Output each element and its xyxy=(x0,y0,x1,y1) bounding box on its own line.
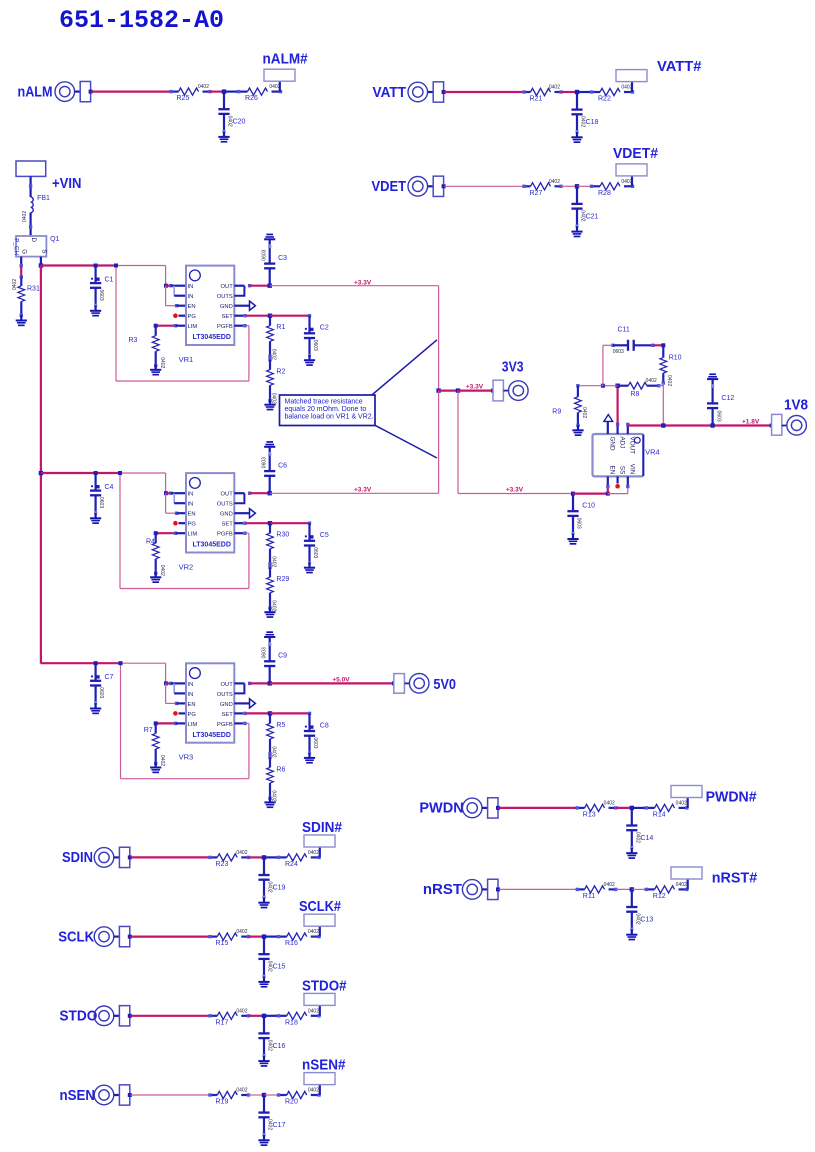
wire LIM VR3 xyxy=(156,722,176,724)
svg-text:R24: R24 xyxy=(285,861,298,868)
svg-text:0402: 0402 xyxy=(236,1008,247,1014)
wire STDO to R17 xyxy=(130,1015,210,1017)
svg-text:GND: GND xyxy=(220,304,233,310)
junction SET divider VR3 xyxy=(268,711,272,715)
wire FB1 to Q1 drain xyxy=(30,213,32,236)
capacitor C3 xyxy=(269,268,271,285)
capacitor C1 xyxy=(94,264,98,268)
svg-text:0402: 0402 xyxy=(236,850,247,856)
wire input rail VR2 xyxy=(41,472,120,474)
svg-text:SET: SET xyxy=(222,712,234,718)
wire R13 to node xyxy=(616,807,632,809)
junction OUT VR2 xyxy=(248,492,251,495)
svg-text:0402: 0402 xyxy=(271,790,277,801)
wire to IN pins VR1 xyxy=(166,285,171,287)
ground xyxy=(90,703,101,714)
svg-text:C13: C13 xyxy=(640,916,653,923)
svg-text:SDIN#: SDIN# xyxy=(302,819,343,836)
svg-text:R30: R30 xyxy=(276,532,289,539)
svg-text:VR4: VR4 xyxy=(645,448,660,457)
capacitor C10 xyxy=(571,492,575,496)
svg-text:C5: C5 xyxy=(320,532,329,539)
svg-text:VATT: VATT xyxy=(373,84,407,101)
svg-text:R7: R7 xyxy=(144,727,153,734)
svg-text:FB1: FB1 xyxy=(37,195,50,202)
svg-text:3V3: 3V3 xyxy=(502,359,524,376)
svg-text:+3.3V: +3.3V xyxy=(466,383,484,390)
capacitor C13 xyxy=(631,889,633,907)
svg-text:nRST#: nRST# xyxy=(712,870,758,887)
ground xyxy=(16,315,27,326)
svg-text:R20: R20 xyxy=(285,1099,298,1106)
svg-text:0402: 0402 xyxy=(198,84,209,90)
svg-text:0402: 0402 xyxy=(159,357,165,368)
wire R21 to node xyxy=(561,91,577,93)
junction SET divider VR2 xyxy=(268,521,272,525)
svg-text:OUTS: OUTS xyxy=(217,502,233,508)
regulator VR4 body xyxy=(593,434,644,476)
wire VIN rail vertical main xyxy=(40,266,42,664)
capacitor C21 xyxy=(576,186,578,204)
resistor R14 xyxy=(646,804,687,811)
svg-text:C20: C20 xyxy=(233,119,246,126)
junction node SCLK/C15 xyxy=(262,934,266,938)
svg-text:0402: 0402 xyxy=(549,85,560,91)
resistor R24 xyxy=(279,854,320,861)
wire divider mid VR3 xyxy=(269,754,271,758)
svg-text:PGFB: PGFB xyxy=(217,532,233,538)
svg-text:0603: 0603 xyxy=(262,647,268,658)
svg-text:Q1: Q1 xyxy=(50,236,59,243)
junction OUT VR1 xyxy=(248,284,251,287)
power port +VIN xyxy=(16,161,46,176)
Q1 source pin xyxy=(40,257,42,266)
svg-text:C7: C7 xyxy=(105,674,114,681)
capacitor C16 xyxy=(263,1016,265,1034)
svg-text:0402: 0402 xyxy=(236,929,247,935)
pin VIN VR4 xyxy=(627,476,629,486)
capacitor C5 xyxy=(308,523,310,541)
svg-text:nRST: nRST xyxy=(423,881,462,898)
svg-text:0402: 0402 xyxy=(271,393,277,404)
ground xyxy=(571,132,582,143)
ground xyxy=(258,977,269,988)
svg-text:0402: 0402 xyxy=(308,1088,319,1094)
ground xyxy=(264,797,275,808)
wire R17 to node xyxy=(249,1015,265,1017)
wire +3.3V into VR4 EN/VIN xyxy=(573,493,608,495)
svg-text:0603: 0603 xyxy=(312,737,318,748)
ground xyxy=(304,562,315,573)
resistor R27 xyxy=(524,183,561,190)
port STDO# xyxy=(304,993,335,1005)
wire node to R12 xyxy=(632,888,647,890)
svg-text:PG: PG xyxy=(188,522,197,528)
wire R28 to port xyxy=(631,176,633,186)
svg-text:C1: C1 xyxy=(105,277,114,284)
svg-text:R2: R2 xyxy=(276,369,285,376)
wire EN VR1 xyxy=(165,286,167,306)
svg-text:PG: PG xyxy=(188,314,197,320)
junction +3.3V B xyxy=(456,388,460,392)
svg-text:0402: 0402 xyxy=(159,565,165,576)
svg-text:C19: C19 xyxy=(273,884,286,891)
svg-text:R17: R17 xyxy=(216,1019,229,1026)
junction Q1 source / VIN rail xyxy=(39,263,43,267)
ground xyxy=(264,399,275,410)
svg-text:0603: 0603 xyxy=(262,457,268,468)
ground xyxy=(258,897,269,908)
svg-text:0603: 0603 xyxy=(613,349,624,355)
ground xyxy=(264,234,275,245)
ground xyxy=(304,355,315,366)
svg-text:R9: R9 xyxy=(552,408,561,415)
svg-text:P_CH: P_CH xyxy=(12,238,19,255)
svg-text:GND: GND xyxy=(220,512,233,518)
svg-text:+1.8V: +1.8V xyxy=(742,418,760,425)
svg-text:SS: SS xyxy=(618,466,625,474)
svg-text:C15: C15 xyxy=(273,964,286,971)
svg-text:LIM: LIM xyxy=(188,532,198,538)
svg-text:C12: C12 xyxy=(721,395,734,402)
svg-text:C17: C17 xyxy=(273,1122,286,1129)
wire OUT rail VR3 xyxy=(250,682,270,684)
wire VDET to R27 xyxy=(444,185,524,187)
wire SET VR3 xyxy=(234,712,243,714)
svg-text:C8: C8 xyxy=(320,722,329,729)
svg-text:0402: 0402 xyxy=(646,378,657,384)
port 1V8 xyxy=(770,424,774,428)
wire LIM VR1 xyxy=(156,325,176,327)
resistor R3 xyxy=(154,324,158,328)
capacitor C18 xyxy=(576,92,578,110)
svg-text:651-1582-A0: 651-1582-A0 xyxy=(59,6,224,35)
resistor R28 xyxy=(592,183,633,190)
svg-text:0402: 0402 xyxy=(12,279,18,290)
junction IN VR2 xyxy=(164,491,168,495)
wire +3.3V down-left to VR2 OUT xyxy=(438,391,440,494)
svg-text:0402: 0402 xyxy=(581,407,587,418)
svg-text:SET: SET xyxy=(222,522,234,528)
svg-text:IN: IN xyxy=(188,502,194,508)
wire VOUT rail +1.8V xyxy=(628,424,772,426)
wire nSEN to R19 xyxy=(130,1094,210,1096)
resistor R17 xyxy=(210,1012,249,1019)
junction +3.3V A xyxy=(436,388,440,392)
capacitor C8 xyxy=(308,713,310,731)
wire R22 to port xyxy=(631,82,633,92)
resistor R25 xyxy=(171,88,210,95)
svg-text:0402: 0402 xyxy=(604,882,615,888)
svg-text:R31: R31 xyxy=(27,286,40,293)
wire R20 to port xyxy=(319,1085,321,1095)
svg-text:LIM: LIM xyxy=(188,722,198,728)
resistor R20 xyxy=(279,1091,320,1098)
svg-text:R12: R12 xyxy=(653,893,666,900)
wire +3.3V from VR1 OUT xyxy=(270,285,439,287)
port nALM# xyxy=(264,69,295,81)
wire node to R14 xyxy=(632,807,647,809)
svg-text:0402: 0402 xyxy=(676,801,687,807)
wire +3.3V junctions xyxy=(439,390,458,392)
svg-text:nSEN#: nSEN# xyxy=(302,1057,346,1074)
svg-text:PGFB: PGFB xyxy=(217,722,233,728)
capacitor C2 xyxy=(308,316,310,334)
svg-text:VDET#: VDET# xyxy=(613,145,659,162)
wire input rail VR3 xyxy=(41,662,121,664)
svg-text:SET: SET xyxy=(222,314,234,320)
junction C9 on OUT rail xyxy=(268,681,272,685)
svg-text:PGFB: PGFB xyxy=(217,324,233,330)
svg-text:VR3: VR3 xyxy=(179,753,194,762)
svg-text:G: G xyxy=(21,249,28,254)
svg-text:R13: R13 xyxy=(583,811,596,818)
wire SET VR1 xyxy=(234,315,243,317)
wire +5.0V rail VR3 OUT xyxy=(270,682,394,684)
svg-text:VOUT: VOUT xyxy=(629,437,636,455)
svg-text:0603: 0603 xyxy=(98,290,104,301)
svg-text:0402: 0402 xyxy=(308,1008,319,1014)
capacitor C7 xyxy=(94,661,98,665)
wire R15 to node xyxy=(249,935,265,937)
svg-text:0402: 0402 xyxy=(666,375,672,386)
svg-text:R18: R18 xyxy=(285,1019,298,1026)
svg-text:nALM#: nALM# xyxy=(263,51,309,68)
wire EN VR3 xyxy=(165,683,167,703)
wire PGFB loop VR1 xyxy=(234,325,243,327)
junction C11 tap xyxy=(601,384,605,388)
svg-text:IN: IN xyxy=(188,692,194,698)
svg-text:PWDN: PWDN xyxy=(419,800,463,817)
junction PGFB loop VR1 xyxy=(114,264,118,268)
svg-text:0402: 0402 xyxy=(676,882,687,888)
wire divider mid VR2 xyxy=(269,564,271,568)
svg-text:PWDN#: PWDN# xyxy=(706,789,758,806)
svg-text:0603: 0603 xyxy=(262,249,268,260)
wire C11 to R10 xyxy=(653,344,663,346)
svg-text:equals 20 mOhm. Done to: equals 20 mOhm. Done to xyxy=(285,406,367,413)
resistor R26 xyxy=(239,88,281,95)
svg-text:IN: IN xyxy=(188,284,194,290)
resistor R2 xyxy=(268,358,271,361)
svg-text:0402: 0402 xyxy=(236,1088,247,1094)
svg-text:EN: EN xyxy=(188,304,196,310)
svg-text:IN: IN xyxy=(188,294,194,300)
svg-text:VIN: VIN xyxy=(629,464,636,475)
port VATT# xyxy=(616,70,647,82)
wire OUT rail VR2 xyxy=(250,492,270,494)
ground arrow GND pin VR2 xyxy=(234,512,249,514)
junction node VDET/C21 xyxy=(575,184,579,188)
wire SCLK to R15 xyxy=(130,935,210,937)
svg-text:0402: 0402 xyxy=(308,929,319,935)
wire node to R20 xyxy=(264,1094,279,1096)
svg-text:C14: C14 xyxy=(640,835,653,842)
resistor R21 xyxy=(524,88,561,95)
resistor R7 xyxy=(154,721,158,725)
port SDIN# xyxy=(304,835,335,847)
capacitor C15 xyxy=(263,937,265,955)
ground xyxy=(218,132,229,143)
svg-text:R10: R10 xyxy=(669,354,682,361)
wire nRST to R11 xyxy=(499,888,578,890)
svg-text:OUTS: OUTS xyxy=(217,294,233,300)
svg-text:R1: R1 xyxy=(276,324,285,331)
svg-text:0603: 0603 xyxy=(312,340,318,351)
ground arrow GND pin VR3 xyxy=(234,702,249,704)
junction IN VR1 xyxy=(164,284,168,288)
pin PG VR2 with flag xyxy=(179,522,187,524)
ground xyxy=(571,226,582,237)
svg-text:R25: R25 xyxy=(177,95,190,102)
wire R10 to VOUT rail xyxy=(662,383,664,426)
svg-text:C11: C11 xyxy=(618,326,630,333)
svg-text:R15: R15 xyxy=(216,940,229,947)
svg-text:R4: R4 xyxy=(146,539,155,546)
wire ADJ left to R9 xyxy=(603,385,618,387)
svg-text:GND: GND xyxy=(220,702,233,708)
resistor R13 xyxy=(577,804,616,811)
svg-text:STDO#: STDO# xyxy=(302,978,347,995)
svg-text:C18: C18 xyxy=(586,119,599,126)
port nRST# xyxy=(671,867,702,879)
capacitor C4 xyxy=(94,471,98,475)
ground xyxy=(304,753,315,764)
note callout lines xyxy=(372,340,438,458)
svg-text:1V8: 1V8 xyxy=(784,397,808,414)
junction VIN at VR2 rail xyxy=(39,471,43,475)
ground xyxy=(90,305,101,316)
svg-text:OUT: OUT xyxy=(221,284,234,290)
svg-text:SDIN: SDIN xyxy=(62,849,93,866)
svg-text:R29: R29 xyxy=(276,576,289,583)
wire R19 to node xyxy=(249,1094,265,1096)
svg-text:SCLK#: SCLK# xyxy=(299,898,342,915)
ground xyxy=(264,607,275,618)
wire R11 to node xyxy=(616,888,632,890)
wire LIM VR2 xyxy=(156,532,176,534)
svg-text:R28: R28 xyxy=(598,190,611,197)
port SCLK# xyxy=(304,914,335,926)
wire PGFB loop VR2 xyxy=(234,532,243,534)
resistor R29 xyxy=(268,566,271,569)
resistor R6 xyxy=(268,756,271,759)
junction R10/VOUT xyxy=(661,423,665,427)
svg-text:R5: R5 xyxy=(276,722,285,729)
wire R26 to port xyxy=(279,81,281,91)
svg-text:IN: IN xyxy=(188,682,194,688)
wire to IN pins VR2 xyxy=(166,492,171,494)
svg-text:R21: R21 xyxy=(530,96,543,103)
ferrite bead FB1 xyxy=(31,197,34,213)
svg-text:ADJ: ADJ xyxy=(618,437,625,449)
resistor R31 xyxy=(20,275,23,278)
svg-text:VATT#: VATT# xyxy=(657,58,702,75)
svg-text:nALM: nALM xyxy=(18,83,53,100)
wire ADJ to divider xyxy=(616,386,618,425)
wire OUT/OUTS bracket VR2 xyxy=(234,492,244,494)
svg-text:+3.3V: +3.3V xyxy=(506,487,524,494)
svg-text:0603: 0603 xyxy=(576,518,582,529)
wire R18 to port xyxy=(319,1006,321,1016)
svg-text:R6: R6 xyxy=(276,766,285,773)
port PWDN# xyxy=(671,786,702,798)
svg-text:STDO: STDO xyxy=(59,1008,97,1025)
ground xyxy=(258,1135,269,1146)
ground xyxy=(572,425,583,436)
ground xyxy=(264,631,275,642)
capacitor C17 xyxy=(263,1095,265,1113)
ground xyxy=(90,513,101,524)
svg-text:R23: R23 xyxy=(216,861,229,868)
svg-text:+VIN: +VIN xyxy=(52,175,81,192)
capacitor C9 xyxy=(269,666,271,683)
svg-text:R8: R8 xyxy=(630,391,639,398)
pin ADJ VR4 xyxy=(616,424,618,434)
pin VOUT VR4 xyxy=(627,424,629,434)
junction OUT VR3 xyxy=(248,682,251,685)
svg-text:EN: EN xyxy=(609,466,616,475)
resistor R22 xyxy=(592,88,633,95)
svg-text:C6: C6 xyxy=(278,462,287,469)
wire OUT rail VR1 xyxy=(250,285,270,287)
capacitor C14 xyxy=(631,808,633,826)
ground xyxy=(150,364,161,375)
pin PG VR1 with flag xyxy=(179,315,187,317)
svg-text:C3: C3 xyxy=(278,255,287,262)
wire nALM to R25 xyxy=(91,90,171,92)
junction PGFB loop VR2 xyxy=(118,471,122,475)
capacitor C12 xyxy=(711,408,713,425)
svg-text:VR2: VR2 xyxy=(179,563,194,572)
svg-text:OUTS: OUTS xyxy=(217,692,233,698)
svg-text:VDET: VDET xyxy=(372,178,407,195)
svg-text:S: S xyxy=(41,249,48,253)
wire node to R26 xyxy=(224,90,239,92)
svg-text:R27: R27 xyxy=(530,190,543,197)
transistor Q1 P-CH MOSFET xyxy=(16,236,46,257)
svg-text:0402: 0402 xyxy=(22,211,28,222)
svg-text:+3.3V: +3.3V xyxy=(354,279,372,286)
junction ADJ node xyxy=(615,384,619,388)
svg-text:PG: PG xyxy=(188,712,197,718)
pin SS VR4 with flag xyxy=(616,476,618,483)
resistor R1 xyxy=(267,316,274,357)
wire R25 to node xyxy=(210,90,224,92)
svg-text:GND: GND xyxy=(609,437,616,451)
svg-text:nSEN: nSEN xyxy=(60,1087,96,1104)
wire divider mid VR1 xyxy=(269,356,271,360)
svg-text:R26: R26 xyxy=(245,95,258,102)
svg-text:LT3045EDD: LT3045EDD xyxy=(193,334,231,341)
svg-text:R19: R19 xyxy=(216,1099,229,1106)
svg-text:0402: 0402 xyxy=(308,850,319,856)
junction node nRST/C13 xyxy=(630,887,634,891)
resistor R11 xyxy=(577,886,616,893)
wire node to R24 xyxy=(264,856,279,858)
svg-text:R14: R14 xyxy=(653,811,666,818)
wire SET VR2 xyxy=(234,522,243,524)
svg-text:EN: EN xyxy=(188,512,196,518)
wire R14 to port xyxy=(687,798,689,808)
port 3V3 xyxy=(491,389,495,393)
wire VATT to R21 xyxy=(444,91,524,93)
resistor R19 xyxy=(210,1091,249,1098)
resistor R5 xyxy=(267,713,274,754)
wire R24 to port xyxy=(319,847,321,857)
wire R27 to node xyxy=(561,185,577,187)
resistor R16 xyxy=(279,933,320,940)
